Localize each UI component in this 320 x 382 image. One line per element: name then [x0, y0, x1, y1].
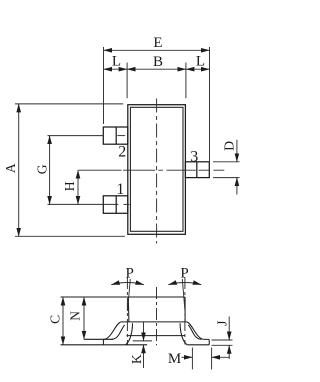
svg-text:H: H	[62, 181, 77, 191]
package vertical centerline (side view)	[156, 287, 158, 345]
package body inner outline (top view)	[130, 107, 183, 231]
P right slant projection line	[182, 279, 185, 311]
svg-text:A: A	[3, 163, 18, 173]
M extension line right	[211, 348, 213, 370]
left lead centerline	[126, 277, 128, 345]
horizontal centerline through pin 3 (top view)	[78, 169, 224, 171]
seating plane line with C extension and K lower extension	[61, 344, 148, 346]
pin 1	[103, 196, 128, 214]
dimension N line	[83, 297, 85, 339]
pin 2 centerline	[48, 135, 104, 137]
J extension line bottom	[212, 344, 233, 346]
P right angle arc	[168, 283, 201, 285]
P left angle arc	[111, 283, 144, 285]
dimension J arrow bottom	[228, 345, 230, 359]
body left edge (side view)	[127, 297, 130, 322]
body bottom edge (side view)	[127, 335, 185, 337]
left lead outer curve	[103, 322, 120, 340]
package body outer outline (top view)	[128, 105, 186, 235]
left lead middle bend curve	[112, 325, 125, 339]
dimension D arrow top	[236, 140, 238, 162]
dimension K lower arrow	[143, 345, 145, 368]
dimension E line	[104, 49, 210, 51]
svg-text:N: N	[68, 311, 83, 321]
dimension M arrow right	[212, 356, 230, 358]
svg-text:E: E	[153, 35, 162, 51]
svg-text:1: 1	[116, 181, 124, 198]
svg-text:J: J	[214, 321, 229, 326]
dimension B line	[127, 68, 186, 70]
body top edge with C/N extension line (side view)	[61, 296, 185, 298]
E extension line right	[209, 47, 211, 162]
B extension line right	[185, 63, 187, 99]
svg-text:2: 2	[118, 143, 126, 160]
A extension line top	[15, 103, 123, 105]
body right edge (side view)	[184, 297, 186, 322]
svg-text:K: K	[129, 354, 144, 364]
M extension line left	[191, 348, 193, 370]
A extension line bottom	[15, 235, 125, 237]
dimension L right line	[186, 68, 210, 70]
vertical centerline (top view)	[156, 99, 158, 244]
svg-text:C: C	[47, 315, 62, 324]
B extension line left	[126, 63, 128, 99]
dimension C line	[62, 297, 64, 345]
dimension H line	[77, 170, 79, 204]
right lead outer curve	[187, 322, 209, 340]
P left slant projection line	[128, 279, 131, 311]
D extension line bottom	[213, 177, 240, 179]
right lead centerline	[184, 277, 186, 345]
left lead toe edge	[102, 339, 104, 344]
left lead inner bottom curve	[125, 323, 132, 345]
dimension J arrow top	[228, 317, 230, 341]
E extension line left	[103, 47, 105, 124]
dimension K upper arrow	[143, 322, 145, 341]
left lead foot top with N extension line	[84, 338, 113, 340]
dimension M arrow left	[182, 356, 193, 358]
pin 3	[185, 162, 209, 178]
shoulder parting line (side view)	[121, 321, 187, 323]
svg-text:L: L	[196, 54, 205, 70]
svg-text:B: B	[153, 54, 163, 70]
svg-text:P: P	[126, 266, 134, 282]
dimension L left line	[104, 68, 128, 70]
D extension line top	[213, 161, 240, 163]
right lead inner bottom curve	[180, 323, 187, 345]
svg-text:G: G	[35, 164, 50, 174]
dimension A line	[18, 104, 20, 236]
right lead middle bend curve	[188, 325, 201, 339]
svg-text:3: 3	[190, 149, 198, 166]
pin 2	[103, 127, 128, 144]
dimension D arrow bottom	[236, 178, 238, 195]
svg-text:P: P	[180, 266, 188, 282]
dimension G line	[49, 136, 51, 205]
svg-text:L: L	[112, 54, 121, 70]
right lead foot bottom	[187, 344, 209, 346]
K upper extension line	[133, 340, 152, 342]
pin 1 centerline	[48, 203, 119, 205]
right lead toe edge	[208, 339, 210, 344]
svg-text:M: M	[168, 351, 181, 367]
J extension line top	[212, 339, 233, 341]
svg-text:D: D	[221, 141, 236, 151]
